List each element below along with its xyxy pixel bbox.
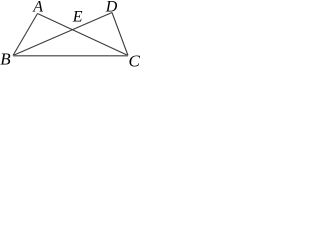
svg-text:D: D	[105, 0, 118, 16]
diagonal BD	[13, 13, 112, 56]
svg-text:E: E	[72, 8, 83, 25]
side AB	[13, 14, 38, 56]
svg-text:C: C	[129, 51, 141, 69]
diagonal AC	[38, 14, 129, 56]
side DC	[112, 13, 128, 56]
svg-text:B: B	[0, 50, 11, 69]
svg-text:A: A	[32, 0, 43, 16]
base BC	[13, 55, 128, 57]
